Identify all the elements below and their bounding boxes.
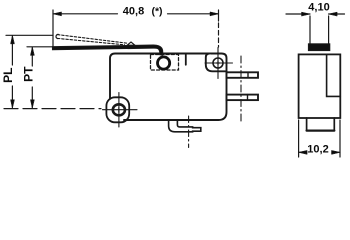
plunger dashed square bbox=[151, 55, 179, 71]
plunger ring bbox=[158, 57, 170, 69]
PL extension line bbox=[6, 34, 53, 36]
bottom terminal bbox=[169, 120, 201, 132]
svg-text:PT: PT bbox=[22, 66, 36, 82]
svg-text:(*): (*) bbox=[151, 5, 162, 17]
right terminal 2 bbox=[227, 95, 259, 101]
dimension 4,10 line + arrows bbox=[286, 13, 345, 15]
terminal centerline bbox=[240, 56, 242, 123]
lever dimple bump bbox=[127, 42, 135, 45]
bottom-left mounting hole bbox=[113, 104, 125, 115]
bottom terminal centerline bbox=[188, 116, 190, 148]
side view plunger button bbox=[308, 44, 329, 51]
switch body outline bbox=[110, 54, 227, 121]
svg-text:4,10: 4,10 bbox=[308, 1, 329, 13]
top-right hole boss bbox=[206, 54, 227, 72]
PL dimension line + arrows bbox=[11, 36, 13, 108]
lever free position (dashed) bbox=[58, 35, 129, 44]
dimension 10,2 line + arrows bbox=[299, 151, 340, 153]
lever arm (pressed position) bbox=[52, 45, 162, 55]
dimension 4,10 extension lines bbox=[310, 16, 329, 44]
internal line right of plunger bbox=[185, 54, 187, 65]
side view body bbox=[299, 54, 341, 118]
PT extension line bbox=[27, 46, 53, 48]
top-right mounting hole bbox=[213, 58, 223, 68]
PT dimension line + arrows bbox=[31, 48, 33, 108]
dimension 10,2 extension lines bbox=[299, 120, 340, 157]
svg-text:PL: PL bbox=[1, 68, 15, 83]
dimension 40,8: right extension (hole centerline) bbox=[218, 10, 220, 21]
svg-text:40,8: 40,8 bbox=[123, 6, 144, 18]
bottom-left hole boss bbox=[106, 97, 129, 122]
lever tip curl (free position) bbox=[56, 34, 58, 38]
top-right hole crosshair bbox=[205, 62, 233, 64]
bottom-left hole crosshair bbox=[103, 109, 138, 111]
right terminal 1 bbox=[227, 72, 259, 78]
dimension 40,8: line + arrows bbox=[53, 13, 219, 15]
side view foot bbox=[307, 118, 335, 130]
dimension 40,8: left extension line bbox=[52, 10, 54, 48]
side view step line bbox=[327, 54, 341, 96]
centerline to PL/PT bbox=[4, 108, 101, 110]
svg-text:10,2: 10,2 bbox=[307, 144, 328, 156]
